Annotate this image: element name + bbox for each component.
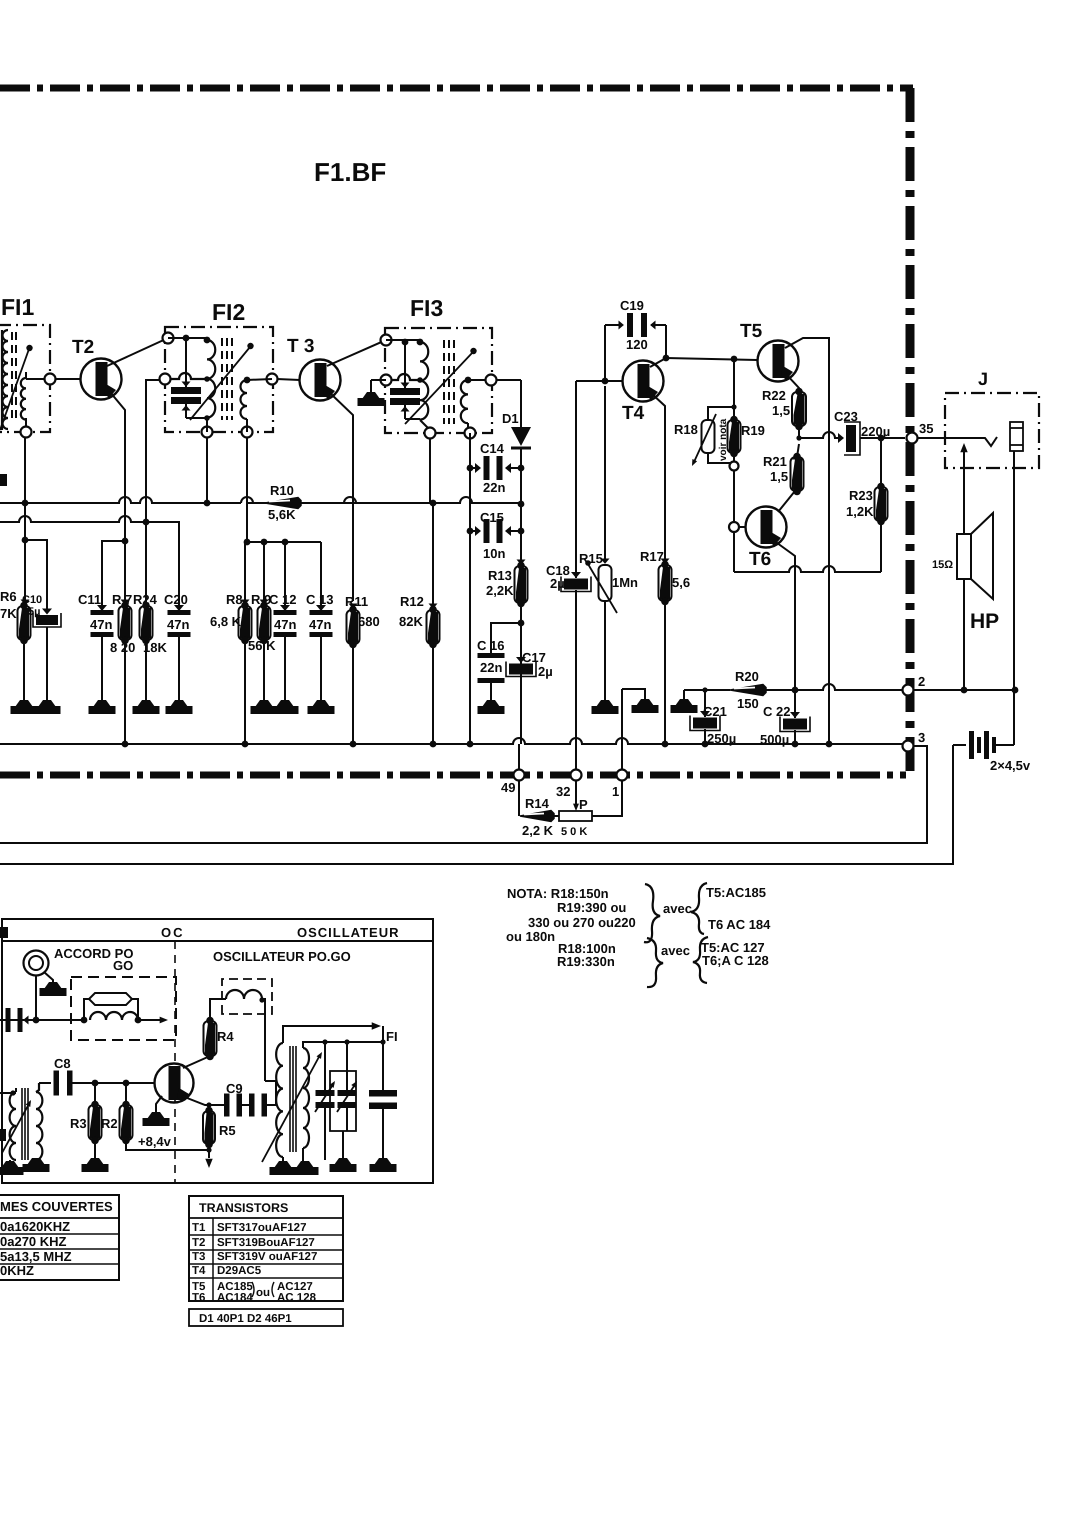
wire FI2 bottom terminal 1 down to AGC line [206,437,208,503]
FI1 primary coil (partial at left edge) [3,330,9,429]
capacitor C12 [284,542,286,610]
potentiometer P 50K [559,811,592,821]
svg-text:47n: 47n [167,617,189,632]
svg-text:C11: C11 [78,592,101,607]
capacitor C18 (electrolytic) [571,572,581,578]
svg-text:2µ: 2µ [538,664,553,679]
svg-text:D29AC5: D29AC5 [217,1265,262,1277]
transistor T6 [746,507,787,548]
wire AGC right segment [301,502,340,504]
svg-text:250µ: 250µ [707,731,736,746]
resistor R19 [728,420,741,453]
F1.BF block border right (dash-dot) [906,88,915,776]
resistor R3 [94,1083,96,1105]
svg-text:AC 128: AC 128 [277,1292,317,1304]
svg-text:FI: FI [386,1029,398,1044]
IF transformer FI1 box (dash-dot) [0,325,50,432]
resistor R22 [792,392,806,426]
FI1 secondary coil [21,378,26,420]
wire FI3 bottom terminal 1 down (R12 column) [429,438,431,503]
C12 ground [284,637,286,700]
cap group ground [342,1131,344,1158]
svg-text:3: 3 [918,730,925,745]
FI2 bottom terminals [202,427,213,438]
resistor R5 [208,1105,210,1111]
T6 base wire [734,526,746,528]
resistor R11 (T3 emitter) [349,604,358,609]
svg-text:F1.BF: F1.BF [314,157,386,187]
svg-text:1: 1 [612,784,619,799]
svg-text:OSCILLATEUR PO.GO: OSCILLATEUR PO.GO [213,949,351,964]
ou bracket right [272,1282,274,1297]
FI2 tuning arrow [190,347,250,420]
wire FI1 bottom down [24,437,26,606]
svg-text:R18: R18 [674,422,698,437]
R21 bottom to T6 collector [778,491,795,512]
FI output arrow [283,1026,373,1043]
bias line y=572 (bumps over emitter+rail verticals) [734,566,881,572]
IF transformer FI3 box (dash-dot) [385,328,492,433]
svg-text:R19: R19 [741,423,765,438]
wire to C10 [25,540,47,612]
R5 bottom arrow to rail [208,1144,210,1158]
variable resistor R15 1M [601,559,610,564]
svg-text:150: 150 [737,696,759,711]
ground at left end of node2 line [683,690,685,699]
transistor T2 [81,359,122,400]
transistor T3 [300,360,341,401]
svg-text:J: J [978,369,988,389]
oscillator coil [226,990,262,999]
jack box J (dash-dot) [945,393,1039,468]
R2 bottom to +8.4v rail [126,1140,209,1150]
svg-text:47n: 47n [90,617,112,632]
oscillator transformer left coil [10,1092,16,1160]
table GAMMES COUVERTES box [0,1195,119,1280]
T5/T6 ou braces [252,1282,254,1297]
C20 ground [178,637,180,700]
T5 collector wire to right rail [785,338,829,430]
wire R13 bottom to C16 [491,623,521,653]
capacitor C10 (electrolytic) [42,609,52,615]
node 49 on dash-dot border [518,744,520,810]
svg-text:2,2K: 2,2K [486,583,514,598]
svg-text:R19:330n: R19:330n [557,954,615,969]
svg-text:MES COUVERTES: MES COUVERTES [0,1199,113,1214]
capacitor C23 (electrolytic) [838,433,844,443]
FI2 secondary coil [241,380,248,419]
resistor R12 [429,604,438,609]
resistor R2 [125,1083,127,1105]
wire FI2 bottom terminal 2 down to R8 group [247,437,321,542]
FI2 terminal top-left [163,333,174,344]
brace 3 [691,883,707,934]
FI3 terminal left-mid [381,375,392,386]
antenna tuning symbol [24,951,49,976]
input wire y=1020 [0,1019,84,1021]
FI1 terminal (to T2 base) [26,378,50,380]
svg-text:R21: R21 [763,454,787,469]
GO filter dashed box [71,977,176,1040]
osc transformer 2 core [289,1046,291,1152]
svg-text:C17: C17 [522,650,546,665]
transformer 2 grounds [282,1157,284,1161]
svg-text:R24: R24 [133,592,158,607]
FI3 bottom terminals [425,428,436,439]
wire node 35 into jack with switch dip [917,437,997,446]
wire FI1 to T2 base [55,378,81,380]
title partial left glyph [0,927,8,938]
speaker cone [971,513,993,599]
T6 emitter wire down [773,540,795,690]
speaker HP body [957,534,971,579]
resistor R20 [730,685,766,696]
variable capacitor CV2 [346,1042,348,1090]
svg-text:T3: T3 [192,1251,205,1263]
svg-text:R12: R12 [400,594,424,609]
svg-text:5a13,5 MHZ: 5a13,5 MHZ [0,1249,72,1264]
jack connector body [1010,422,1023,451]
svg-text:C14: C14 [480,441,505,456]
wire AGC mid segment [241,497,361,503]
R8 bottom to bus [244,640,246,744]
svg-text:R 7: R 7 [112,592,132,607]
T1 collector to R4 [183,1056,210,1068]
svg-text:22n: 22n [483,480,505,495]
T4 base wire [576,380,622,382]
svg-text:P: P [579,797,588,812]
GO coil [90,1012,138,1020]
svg-text:56 K: 56 K [248,638,276,653]
svg-text:5µ: 5µ [28,606,40,618]
osc output transformer left coil [276,1043,283,1157]
antenna input wire to coil [0,1092,16,1094]
svg-text:5,6: 5,6 [672,575,690,590]
svg-text:ou: ou [256,1287,270,1299]
tuning cap group wire [268,1042,385,1105]
svg-text:22n: 22n [480,660,502,675]
R23 bottom to T6 base bias line [880,521,882,572]
node 3 on border [903,741,914,752]
svg-text:HP: HP [970,610,999,633]
capacitor C21 (electrolytic) [704,690,706,717]
FI1 core [11,332,13,422]
node 2 line to HP and jack column [913,689,1015,691]
svg-text:T2: T2 [72,337,94,358]
section divider dashed [174,941,176,1183]
svg-text:1Mn: 1Mn [612,575,638,590]
svg-text:AC184: AC184 [217,1292,253,1304]
capacitor C9 (two in series) [211,1104,225,1106]
osc output transformer right coil [303,1048,309,1148]
wire C8 to T1 base [71,1082,155,1084]
svg-text:SFT319BouAF127: SFT319BouAF127 [217,1237,315,1249]
input capacitor [6,1008,11,1032]
svg-text:R19:390 ou: R19:390 ou [557,900,626,915]
svg-text:82K: 82K [399,614,423,629]
label E (partial) [0,1129,6,1141]
svg-text:680: 680 [358,614,380,629]
wire T2 collector to FI2 [107,338,168,366]
svg-text:2,2 K: 2,2 K [522,823,554,838]
FI3 ground cap outside [371,379,386,381]
svg-text:47n: 47n [274,617,296,632]
capacitor C19 feedback [604,325,606,381]
svg-text:R13: R13 [488,568,512,583]
resistor R6 [21,600,30,605]
midpoint wire to C23 (bump over rail) [799,432,841,438]
svg-text:R22: R22 [762,388,786,403]
osc transformer tuning arrow [2,1102,30,1153]
capacitor C15 [470,530,478,532]
svg-text:220µ: 220µ [861,424,890,439]
node 32 on dash-dot border [575,744,577,800]
R18/R19 bottom bracket [708,453,734,463]
svg-text:C10: C10 [22,594,42,606]
svg-text:SFT319V ouAF127: SFT319V ouAF127 [217,1251,317,1263]
P wiper arrow [575,800,577,806]
resistor R24 [140,606,153,640]
antenna ground lead [44,972,53,982]
diode table box [189,1309,343,1326]
C22 below emitter line [794,690,796,718]
svg-text:120: 120 [626,337,648,352]
svg-text:C 12: C 12 [269,592,296,607]
ceramic resonator [89,993,132,1005]
FI2 terminal right-mid [267,374,278,385]
wire FI3 bottom to C14 left / down [469,433,471,744]
wire T3 collector to FI3 [327,340,386,366]
capacitor C20 [174,605,184,611]
svg-text:R11: R11 [345,594,368,609]
svg-text:T5:AC185: T5:AC185 [706,885,766,900]
speaker bottom wire [963,579,965,690]
R12 bottom to bus [432,644,434,744]
wire C8 left down to transformer [38,1083,40,1090]
wire R15 up to T4 base [604,386,606,561]
svg-text:T1: T1 [192,1222,206,1234]
osc transformer core [21,1088,23,1160]
resistor R8 [244,542,246,606]
svg-text:R20: R20 [735,669,759,684]
capacitor C13 [316,605,326,611]
svg-text:FI3: FI3 [410,295,443,321]
resistor R10 (series in AGC line) [265,502,361,504]
svg-text:C8: C8 [54,1056,71,1071]
R11 bottom to bus [352,644,354,744]
svg-text:0a1620KHZ: 0a1620KHZ [0,1219,70,1234]
node1 column to ground [622,689,645,699]
brace 1 [644,884,660,942]
svg-text:5 0 K: 5 0 K [561,826,587,838]
table TRANSISTORS row lines [189,1234,343,1236]
svg-text:avec: avec [663,901,692,916]
svg-text:R6: R6 [0,589,17,604]
transistor T1 [155,1064,194,1103]
battery 2x4.5v [953,744,966,746]
svg-text:5,6K: 5,6K [268,507,296,522]
resistor R9 [263,542,265,606]
svg-text:330 ou 270 ou220: 330 ou 270 ou220 [528,915,636,930]
fixed capacitor group right [382,1026,384,1090]
capacitor C11 [97,605,107,611]
capacitor C22 (electrolytic) [790,712,800,718]
svg-text:D1 40P1 D2 46P1: D1 40P1 D2 46P1 [199,1313,292,1325]
FI2 core [221,338,223,420]
svg-text:49: 49 [501,780,515,795]
wire FI3 right terminal to D1 [496,379,521,381]
resistor R14 [518,810,520,816]
svg-text:2µ: 2µ [550,576,565,591]
FI3 center tap wire [391,374,420,380]
battery plus wire up to jack column [1013,690,1015,745]
FI2 center tap wire [170,373,207,379]
svg-text:7K: 7K [0,606,17,621]
node 2 line right segment (bump over rail) [766,684,903,690]
svg-text:R8: R8 [226,592,243,607]
svg-text:C19: C19 [620,298,644,313]
svg-text:T5: T5 [740,321,763,342]
node 1 on dash-dot border [621,744,623,816]
svg-text:C 22: C 22 [763,704,790,719]
osc transformer right coil [36,1092,42,1160]
svg-text:T6;A C 128: T6;A C 128 [702,953,769,968]
IF transformer FI2 box (dash-dot) [165,327,273,432]
wire through coil to arrow [138,1019,160,1021]
svg-text:C23: C23 [834,409,858,424]
wire R22 bottom to midpoint [798,426,800,438]
FI3 tuning arrow [405,352,473,424]
svg-text:FI2: FI2 [212,299,245,325]
osc transformer 2 tuning arrow [262,1055,320,1162]
HP feed arrow up [963,452,965,534]
svg-text:R3: R3 [70,1116,87,1131]
F1.BF block border bottom (dash-dot) [0,772,906,779]
capacitor C17 (electrolytic) [516,657,526,663]
svg-text:OC: OC [161,925,185,940]
R9 ground [263,640,265,700]
svg-text:32: 32 [556,784,570,799]
svg-text:T6 AC 184: T6 AC 184 [708,917,771,932]
svg-text:C 13: C 13 [306,592,333,607]
wire node32 column up to C18 [575,590,577,744]
wire pot right to node 1 [592,782,622,816]
svg-text:NOTA: R18:150n: NOTA: R18:150n [507,886,609,901]
svg-text:FI1: FI1 [1,294,34,320]
resistor R7 [121,600,130,605]
T1 ground stub [156,1096,162,1112]
R17 bottom to bus [664,602,666,744]
svg-text:2: 2 [918,674,925,689]
wire C19 right down to collector line [665,325,667,358]
FI3 right terminal [486,375,497,386]
svg-text:OSCILLATEUR: OSCILLATEUR [297,925,399,940]
FI3 internal top wire [386,339,420,341]
R6 ground [23,640,25,700]
C16 ground [490,678,492,700]
FI3 internal capacitor [404,342,406,388]
svg-text:GO: GO [113,958,133,973]
svg-text:T4: T4 [622,403,645,424]
jack sleeve wire down [1015,451,1017,690]
diode D1 [511,427,531,446]
svg-text:35: 35 [919,421,933,436]
right cap ground [374,1158,392,1165]
wire bias line y=522 [0,516,179,610]
R4 top to oscillator coil [210,999,226,1021]
svg-text:0a270 KHZ: 0a270 KHZ [0,1234,67,1249]
svg-text:C 16: C 16 [477,638,504,653]
FI1 bottom terminal [25,418,27,432]
node 35 on border [907,433,918,444]
variable resistor R18 (voir nota) [702,420,715,453]
svg-text:R14: R14 [525,796,550,811]
oscillator block outer box [2,919,433,1183]
FI2 internal cap leads [185,338,187,387]
svg-text:T6: T6 [749,549,771,570]
FI2 primary coil [207,340,215,418]
wire AGC line left segment [0,497,241,503]
resistor R13 [517,560,526,565]
svg-text:C20: C20 [164,592,188,607]
node 2 line left segment [684,689,730,691]
T4 emitter wire down to R17 [652,394,665,566]
svg-text:C9: C9 [226,1081,243,1096]
svg-text:8 20: 8 20 [110,640,135,655]
R18/R19 top bracket [708,407,734,420]
right rail crossing output wire (bump) and down to bus [828,338,830,744]
F1.BF block border top (dash-dot) [0,85,913,92]
resistor R23 from output node [878,435,885,442]
FI2 terminal left-mid [160,374,171,385]
svg-text:C21: C21 [703,704,727,719]
brace 4 [693,937,708,983]
wire T4 collector to T5 base [666,358,757,360]
table TRANSISTORS column divider [212,1218,214,1301]
FI3 core [443,340,445,424]
FI3 terminal top-left [381,335,392,346]
T5 emitter to R22 [786,374,799,392]
brace 2 [647,938,663,987]
svg-text:2×4,5v: 2×4,5v [990,758,1031,773]
svg-text:1,5: 1,5 [770,469,788,484]
svg-text:R2: R2 [101,1116,118,1131]
capacitor C14 [470,467,478,469]
tuning cap box [330,1071,356,1131]
FI3 secondary coil [461,380,468,423]
transistor T5 [758,341,799,382]
FI3 primary coil [420,342,428,420]
svg-text:avec: avec [661,943,690,958]
capacitor C8 [39,1082,51,1084]
C13 ground [320,637,322,700]
svg-text:1,5: 1,5 [772,403,790,418]
svg-text:SFT317ouAF127: SFT317ouAF127 [217,1222,306,1234]
oscillator coil dashed box [222,979,272,1014]
wire FI2 to T3 base [277,379,300,380]
svg-text:47n: 47n [309,617,331,632]
R15 ground [604,601,606,700]
T6 base vertical to bias line [733,532,735,572]
resistor R4 [204,1021,217,1056]
C10 ground [46,627,48,700]
R7 bottom to bus [124,640,126,744]
svg-text:TRANSISTORS: TRANSISTORS [199,1201,288,1215]
wire C18 top to T4 base [575,381,577,578]
svg-text:C15: C15 [480,510,504,525]
svg-text:1,2K: 1,2K [846,504,874,519]
junction circle below R18/R19 [733,463,735,522]
